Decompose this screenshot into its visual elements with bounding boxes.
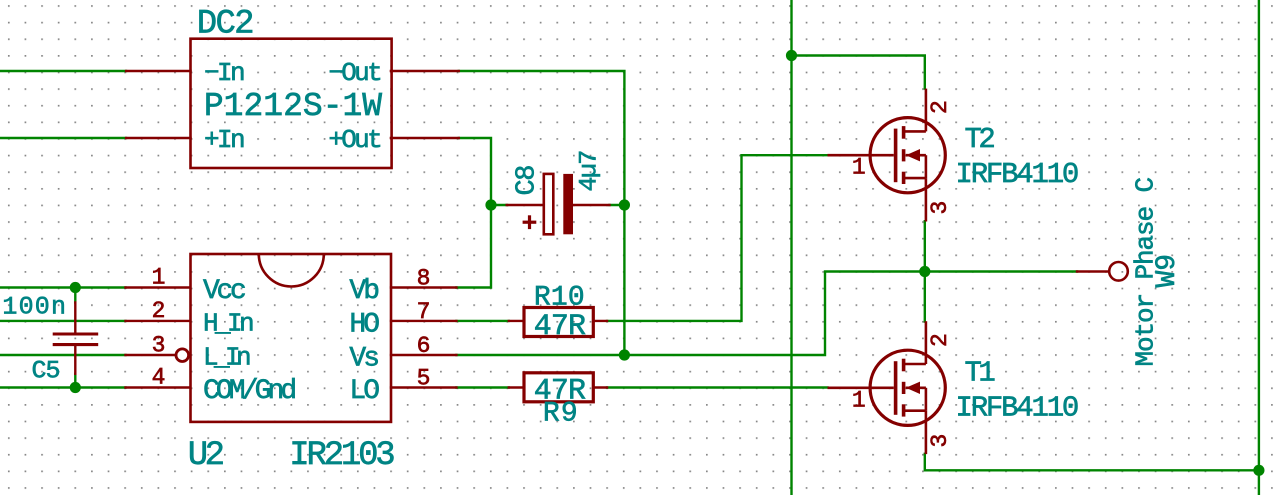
svg-text:6: 6 (417, 333, 431, 359)
svg-text:R9: R9 (543, 398, 579, 429)
svg-text:7: 7 (417, 299, 431, 325)
svg-text:Vb: Vb (349, 276, 378, 307)
svg-text:8: 8 (417, 266, 431, 292)
svg-text:H_In: H_In (203, 309, 253, 339)
svg-text:−Out: −Out (328, 58, 380, 88)
svg-text:3: 3 (152, 332, 166, 358)
svg-text:5: 5 (417, 366, 431, 392)
svg-text:LO: LO (349, 376, 379, 407)
svg-text:−In: −In (204, 58, 244, 88)
svg-text:T1: T1 (965, 356, 995, 389)
svg-text:3: 3 (927, 434, 953, 448)
svg-text:2: 2 (927, 100, 953, 114)
svg-text:COM/Gnd: COM/Gnd (203, 376, 295, 407)
svg-text:C5: C5 (31, 357, 59, 386)
svg-text:IRFB4110: IRFB4110 (956, 158, 1078, 191)
svg-text:4µ7: 4µ7 (575, 151, 604, 192)
svg-text:HO: HO (349, 309, 379, 340)
svg-text:C8: C8 (513, 166, 543, 196)
svg-text:IR2103: IR2103 (289, 437, 394, 475)
svg-text:4: 4 (152, 365, 166, 391)
svg-text:+Out: +Out (328, 125, 380, 155)
svg-text:2: 2 (927, 333, 953, 347)
svg-text:P1212S-1W: P1212S-1W (204, 88, 382, 125)
svg-text:T2: T2 (965, 123, 995, 156)
svg-text:DC2: DC2 (197, 5, 253, 43)
svg-text:47R: 47R (534, 310, 586, 344)
svg-text:IRFB4110: IRFB4110 (956, 392, 1078, 425)
svg-text:L_In: L_In (203, 343, 250, 373)
svg-text:1: 1 (852, 155, 866, 181)
svg-text:1: 1 (152, 265, 166, 291)
svg-text:2: 2 (152, 298, 166, 324)
svg-text:1: 1 (852, 388, 866, 414)
svg-text:U2: U2 (188, 437, 223, 475)
svg-text:Vs: Vs (349, 343, 378, 374)
svg-text:+In: +In (204, 125, 244, 155)
svg-text:Vcc: Vcc (203, 276, 245, 307)
svg-text:W9: W9 (1152, 254, 1183, 288)
svg-text:100n: 100n (2, 293, 67, 322)
svg-text:3: 3 (927, 201, 953, 215)
